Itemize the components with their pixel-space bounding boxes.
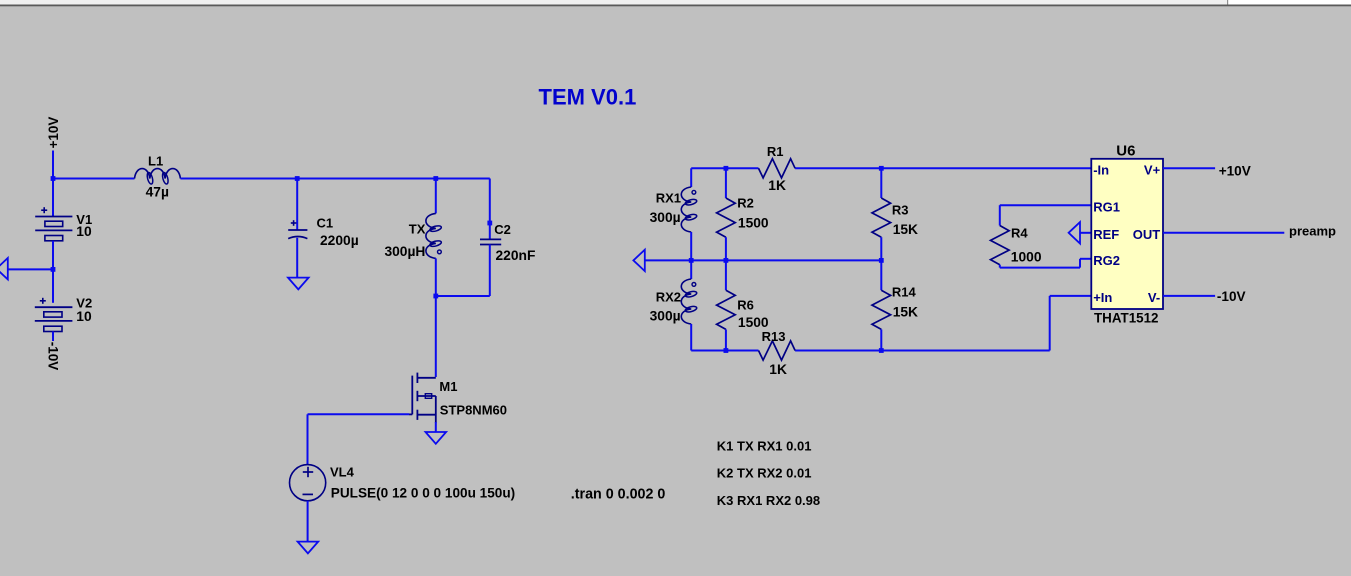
inductor RX2 xyxy=(690,260,692,279)
svg-text:VL4: VL4 xyxy=(330,465,355,480)
resistor R3 xyxy=(880,168,882,198)
wire OUT to preamp flag xyxy=(1163,232,1284,234)
svg-text:L1: L1 xyxy=(148,153,163,168)
svg-text:preamp: preamp xyxy=(1289,224,1336,239)
svg-text:TEM V0.1: TEM V0.1 xyxy=(539,85,637,110)
ground flag (middle row, rotated left) xyxy=(633,250,644,271)
wire V- to -10V flag xyxy=(1163,295,1215,297)
wire C1 top lead xyxy=(296,179,298,231)
node junction above C2 xyxy=(487,221,492,226)
ground flag at REF (rotated left) xyxy=(1069,222,1080,243)
node junction at C1 top xyxy=(295,176,300,181)
wire source to ground xyxy=(435,422,437,432)
svg-text:15K: 15K xyxy=(893,305,918,320)
ground flag (left, rotated) xyxy=(0,258,8,279)
wire R4 bottom to RG2 xyxy=(1000,267,1080,269)
svg-text:OUT: OUT xyxy=(1133,227,1161,242)
battery V2 xyxy=(40,300,46,302)
node junction R6 bottom xyxy=(724,348,729,353)
svg-text:V-: V- xyxy=(1148,290,1160,305)
inductor RX1 xyxy=(690,168,692,187)
node junction TX bottom xyxy=(433,294,438,299)
svg-text:RG2: RG2 xyxy=(1093,253,1120,268)
svg-text:300µ: 300µ xyxy=(650,308,681,323)
svg-text:1K: 1K xyxy=(769,362,787,377)
wire VL4 top lead xyxy=(307,414,309,465)
wire V+ to +10V flag xyxy=(1163,167,1215,169)
svg-text:+10V: +10V xyxy=(46,117,61,149)
svg-text:V+: V+ xyxy=(1144,163,1161,178)
wire VL4 bottom lead xyxy=(307,501,309,542)
IC U6 box xyxy=(1091,159,1163,309)
wire C1 bottom lead xyxy=(296,238,298,278)
wire V2 bottom to -10V flag xyxy=(52,332,54,342)
wire V1 bottom through mid junction to V2 top xyxy=(52,241,54,303)
svg-text:1K: 1K xyxy=(768,178,786,193)
svg-text:C2: C2 xyxy=(494,222,511,237)
svg-text:10: 10 xyxy=(76,309,92,324)
wire C2 top lead from top row corner xyxy=(489,179,491,240)
resistor R6 xyxy=(725,260,727,290)
ground below VL4 xyxy=(298,542,319,554)
node junction R14 bottom xyxy=(879,348,884,353)
ground below M1 xyxy=(426,432,447,444)
battery V1 xyxy=(41,209,47,211)
svg-text:R6: R6 xyxy=(737,297,754,312)
wire middle row xyxy=(645,259,882,261)
wire drain down from TX junction xyxy=(435,296,437,377)
wire C2 bottom lead and across to TX bottom xyxy=(489,245,491,297)
wire bottom row up to +In xyxy=(1049,296,1051,351)
svg-text:R4: R4 xyxy=(1011,226,1028,241)
wire gate to VL4 xyxy=(308,413,410,415)
svg-text:RX2: RX2 xyxy=(656,289,681,304)
voltage source VL4 xyxy=(290,465,326,501)
svg-text:1500: 1500 xyxy=(738,315,769,330)
resistor R13 xyxy=(759,341,796,360)
inductor TX xyxy=(426,213,436,258)
svg-text:PULSE(0 12 0 0 0 100u 150u): PULSE(0 12 0 0 0 100u 150u) xyxy=(331,486,515,501)
svg-text:300µH: 300µH xyxy=(384,244,425,259)
wire TX top lead xyxy=(435,179,437,214)
node junction R2 top xyxy=(724,166,729,171)
ground below C1 xyxy=(288,278,309,290)
svg-text:R2: R2 xyxy=(737,196,754,211)
svg-text:47µ: 47µ xyxy=(146,184,169,199)
svg-text:TX: TX xyxy=(409,222,426,237)
svg-text:U6: U6 xyxy=(1116,143,1135,160)
svg-text:+In: +In xyxy=(1093,290,1112,305)
svg-text:R3: R3 xyxy=(892,203,909,218)
svg-text:-In: -In xyxy=(1093,163,1109,178)
svg-text:K1 TX RX1 0.01: K1 TX RX1 0.01 xyxy=(717,439,812,454)
node junction RX1 bottom xyxy=(689,258,694,263)
svg-text:STP8NM60: STP8NM60 xyxy=(440,403,507,418)
svg-text:2200µ: 2200µ xyxy=(320,233,359,248)
svg-text:-10V: -10V xyxy=(1217,289,1246,304)
svg-text:K2 TX RX2 0.01: K2 TX RX2 0.01 xyxy=(717,466,812,481)
svg-text:REF: REF xyxy=(1093,227,1119,242)
svg-text:1000: 1000 xyxy=(1011,249,1042,264)
svg-text:RX1: RX1 xyxy=(656,191,681,206)
svg-text:1500: 1500 xyxy=(738,216,769,231)
node junction between V1 and V2 xyxy=(51,267,56,272)
transistor M1 (NMOS) xyxy=(411,376,413,415)
svg-text:M1: M1 xyxy=(439,379,457,394)
resistor R14 xyxy=(880,260,882,290)
svg-text:10: 10 xyxy=(76,224,92,239)
node junction R3 bottom xyxy=(879,258,884,263)
svg-text:300µ: 300µ xyxy=(650,210,681,225)
capacitor C2 xyxy=(480,238,501,240)
node junction R2 bottom xyxy=(724,258,729,263)
wire from +10V flag down to junction and V1 xyxy=(52,151,54,217)
wire main top row left of L1 xyxy=(53,178,135,180)
wire TX bottom lead xyxy=(435,258,437,296)
svg-text:THAT1512: THAT1512 xyxy=(1094,310,1159,325)
resistor R2 xyxy=(725,168,727,198)
node junction at TX top xyxy=(433,176,438,181)
svg-text:K3 RX1 RX2 0.98: K3 RX1 RX2 0.98 xyxy=(717,493,820,508)
svg-text:15K: 15K xyxy=(893,222,918,237)
svg-text:+10V: +10V xyxy=(1219,163,1251,178)
svg-text:C1: C1 xyxy=(317,216,334,231)
svg-text:RG1: RG1 xyxy=(1093,200,1120,215)
capacitor C1 (polarized) xyxy=(291,222,297,224)
svg-text:R1: R1 xyxy=(767,144,784,159)
window top strip xyxy=(0,0,1228,5)
svg-text:-10V: -10V xyxy=(46,342,61,371)
wire right top row xyxy=(691,167,758,169)
node junction at V1 top / L1 row xyxy=(51,176,56,181)
svg-text:R14: R14 xyxy=(892,285,917,300)
svg-text:220nF: 220nF xyxy=(496,248,536,263)
wire right bottom row xyxy=(691,350,758,352)
resistor R4 xyxy=(1000,204,1092,206)
svg-text:R13: R13 xyxy=(762,329,786,344)
resistor R1 xyxy=(759,159,796,178)
wire ground flag to junction xyxy=(8,268,53,270)
wire REF stub xyxy=(1080,232,1091,234)
inductor L1 xyxy=(135,169,181,179)
node junction R3 top xyxy=(879,166,884,171)
svg-text:.tran 0 0.002 0: .tran 0 0.002 0 xyxy=(571,486,666,502)
wire top row from L1 to C2 corner xyxy=(180,178,489,180)
